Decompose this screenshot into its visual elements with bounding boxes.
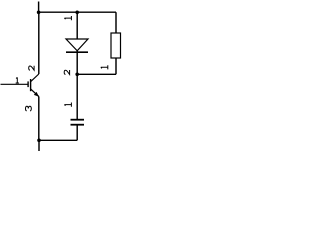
node junction dot mid diode/resistor/cap bbox=[75, 73, 79, 77]
wire right branch upper lead bbox=[115, 12, 117, 33]
body bar bbox=[30, 79, 32, 91]
wire capacitor bottom lead bbox=[76, 125, 78, 141]
wire diode bottom lead bbox=[76, 52, 78, 74]
wire diode top lead bbox=[76, 12, 78, 52]
node junction dot top diode bbox=[75, 11, 79, 15]
pin label 2 of diode bbox=[64, 70, 69, 75]
emitter arrowhead bbox=[34, 92, 39, 97]
wire transistor emitter lead bbox=[38, 97, 40, 141]
wire capacitor top lead bbox=[76, 74, 78, 119]
node junction dot bottom-left bbox=[37, 139, 41, 143]
wire bottom rail bbox=[39, 139, 77, 141]
wire right branch lower lead bbox=[115, 58, 117, 74]
pin label 2 of transistor (collector) bbox=[29, 66, 34, 71]
wire bottom stub below junction bbox=[38, 140, 40, 151]
transistor Q (IGBT) bbox=[1, 74, 39, 97]
gate bar bbox=[27, 81, 29, 87]
collector diagonal bbox=[31, 74, 39, 82]
capacitor C bbox=[71, 120, 85, 125]
pin label 1 of transistor (gate) bbox=[16, 77, 19, 83]
pin label 3 of transistor (emitter) bbox=[26, 106, 32, 111]
gate lead bbox=[1, 83, 28, 85]
wire mid rail from resistor to diode node bbox=[77, 73, 116, 75]
pin label 1 of capacitor bbox=[64, 103, 71, 107]
wire transistor collector lead bbox=[38, 12, 40, 74]
emitter diagonal bbox=[31, 89, 39, 97]
pin label 1 of diode bbox=[64, 16, 71, 20]
pin label 1 of resistor bbox=[101, 65, 108, 69]
diode D bbox=[66, 39, 88, 52]
node junction dot top-left bbox=[37, 11, 41, 15]
wire top stub above junction bbox=[38, 2, 40, 13]
wire top rail bbox=[39, 11, 116, 13]
resistor R (box symbol) bbox=[101, 33, 121, 69]
